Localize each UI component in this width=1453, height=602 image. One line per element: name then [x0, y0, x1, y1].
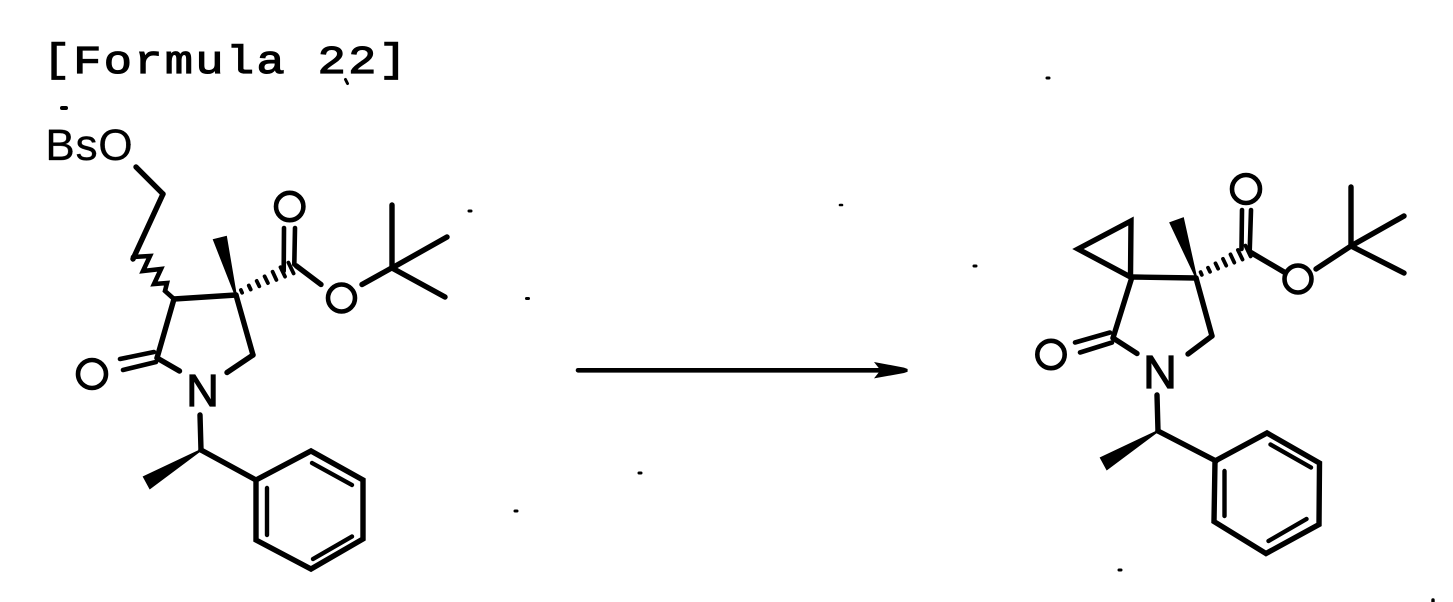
arrow reaction	[578, 368, 880, 373]
ring phenyl left	[256, 451, 363, 569]
wire phenyl inner double bond left-side right	[1222, 471, 1226, 516]
wire bond esterC-O left	[297, 266, 322, 285]
wire bond O-CH2 left chain	[136, 167, 163, 194]
atom O carbonyl right ester	[1232, 175, 1260, 203]
atom N right	[1147, 356, 1173, 388]
wire ring bond C3-C4	[174, 295, 236, 299]
label BsO	[49, 129, 131, 160]
node speck dot mid-top	[840, 204, 842, 207]
node speck comma below 22	[346, 80, 348, 84]
atom N left	[190, 375, 215, 406]
atom O ketone right	[1037, 341, 1064, 368]
wire tBu methyl lower-right right	[1351, 246, 1404, 273]
wire phenyl inner double bond left-side left	[265, 488, 269, 535]
wire tBu methyl upper-right right	[1351, 216, 1404, 246]
node speck dot 6	[1047, 77, 1049, 80]
wire phenyl inner double bond bottom-right left	[313, 537, 352, 560]
wire bond CH2-CH2 left chain	[133, 194, 163, 259]
wire ring bond N-C2	[157, 358, 180, 371]
bond methyl wedge on CH right	[1101, 431, 1158, 469]
wire ring bond CH2-N right	[1188, 336, 1212, 354]
wire bond esterC-O right	[1250, 252, 1284, 272]
wire C2=O double bond	[120, 352, 156, 370]
wire ring bond C7-CH2 right	[1196, 278, 1212, 336]
node speck dot 5	[515, 510, 517, 513]
bond hashed wedge C4-esterC	[241, 263, 294, 293]
node speck dot 2	[469, 210, 471, 213]
wire bond N-CH right	[1157, 395, 1158, 431]
atom O ester right	[1285, 266, 1312, 293]
wire bond N-CH left	[200, 415, 201, 450]
wire bond O-tBu left	[362, 268, 393, 285]
wire C=O double bond right ketone	[1075, 333, 1112, 353]
atom O ester left	[328, 285, 355, 312]
wire tBu methyl upper-right left	[392, 237, 447, 268]
ring cyclopropane right	[1078, 221, 1131, 277]
wire ring bond spiro-C7 right	[1132, 277, 1196, 278]
ring phenyl right	[1214, 433, 1320, 554]
node speck dot 9	[1431, 600, 1434, 602]
wire tBu methyl up right	[1348, 187, 1353, 246]
node speck dot 3	[527, 297, 529, 300]
wire wavy bond to C3	[133, 256, 174, 299]
wire bond CH-phenyl left	[201, 450, 256, 480]
bond methyl wedge on CH left	[144, 450, 201, 488]
node speck dot 8	[1119, 569, 1121, 572]
wire ester C=O double bond left	[284, 228, 295, 271]
wire bond O-tBu right	[1316, 246, 1351, 269]
node speck dot 7	[974, 265, 976, 268]
bond hashed wedge C7-esterC right	[1201, 246, 1251, 275]
wire phenyl inner double bond bottom-right right	[1269, 519, 1307, 541]
label [Formula 22]	[52, 42, 398, 79]
wire bond CH-phenyl right	[1158, 431, 1216, 461]
wire tBu methyl lower-right left	[392, 268, 445, 297]
wire ring bond Ccarbonyl-spiro right	[1113, 277, 1132, 338]
node speck dot 1	[62, 106, 66, 110]
wire ring bond C2-C3	[157, 299, 174, 358]
wire tBu methyl up left	[389, 205, 394, 268]
wire ring bond N-Ccarbonyl right	[1113, 338, 1137, 354]
wire ester C=O double bond right	[1242, 210, 1252, 251]
atom O carbonyl left ester	[276, 193, 303, 220]
bond methyl wedge on C7 right	[1171, 219, 1197, 278]
atom O ketone left	[78, 360, 106, 388]
bond methyl wedge on C4	[214, 237, 236, 296]
wire ring bond C5-N	[227, 355, 253, 373]
wire phenyl inner double bond top-right right	[1271, 445, 1312, 468]
node speck dot 4	[639, 472, 641, 475]
wire phenyl inner double bond top-right left	[312, 463, 352, 485]
wire ring bond C4-C5	[236, 295, 253, 355]
